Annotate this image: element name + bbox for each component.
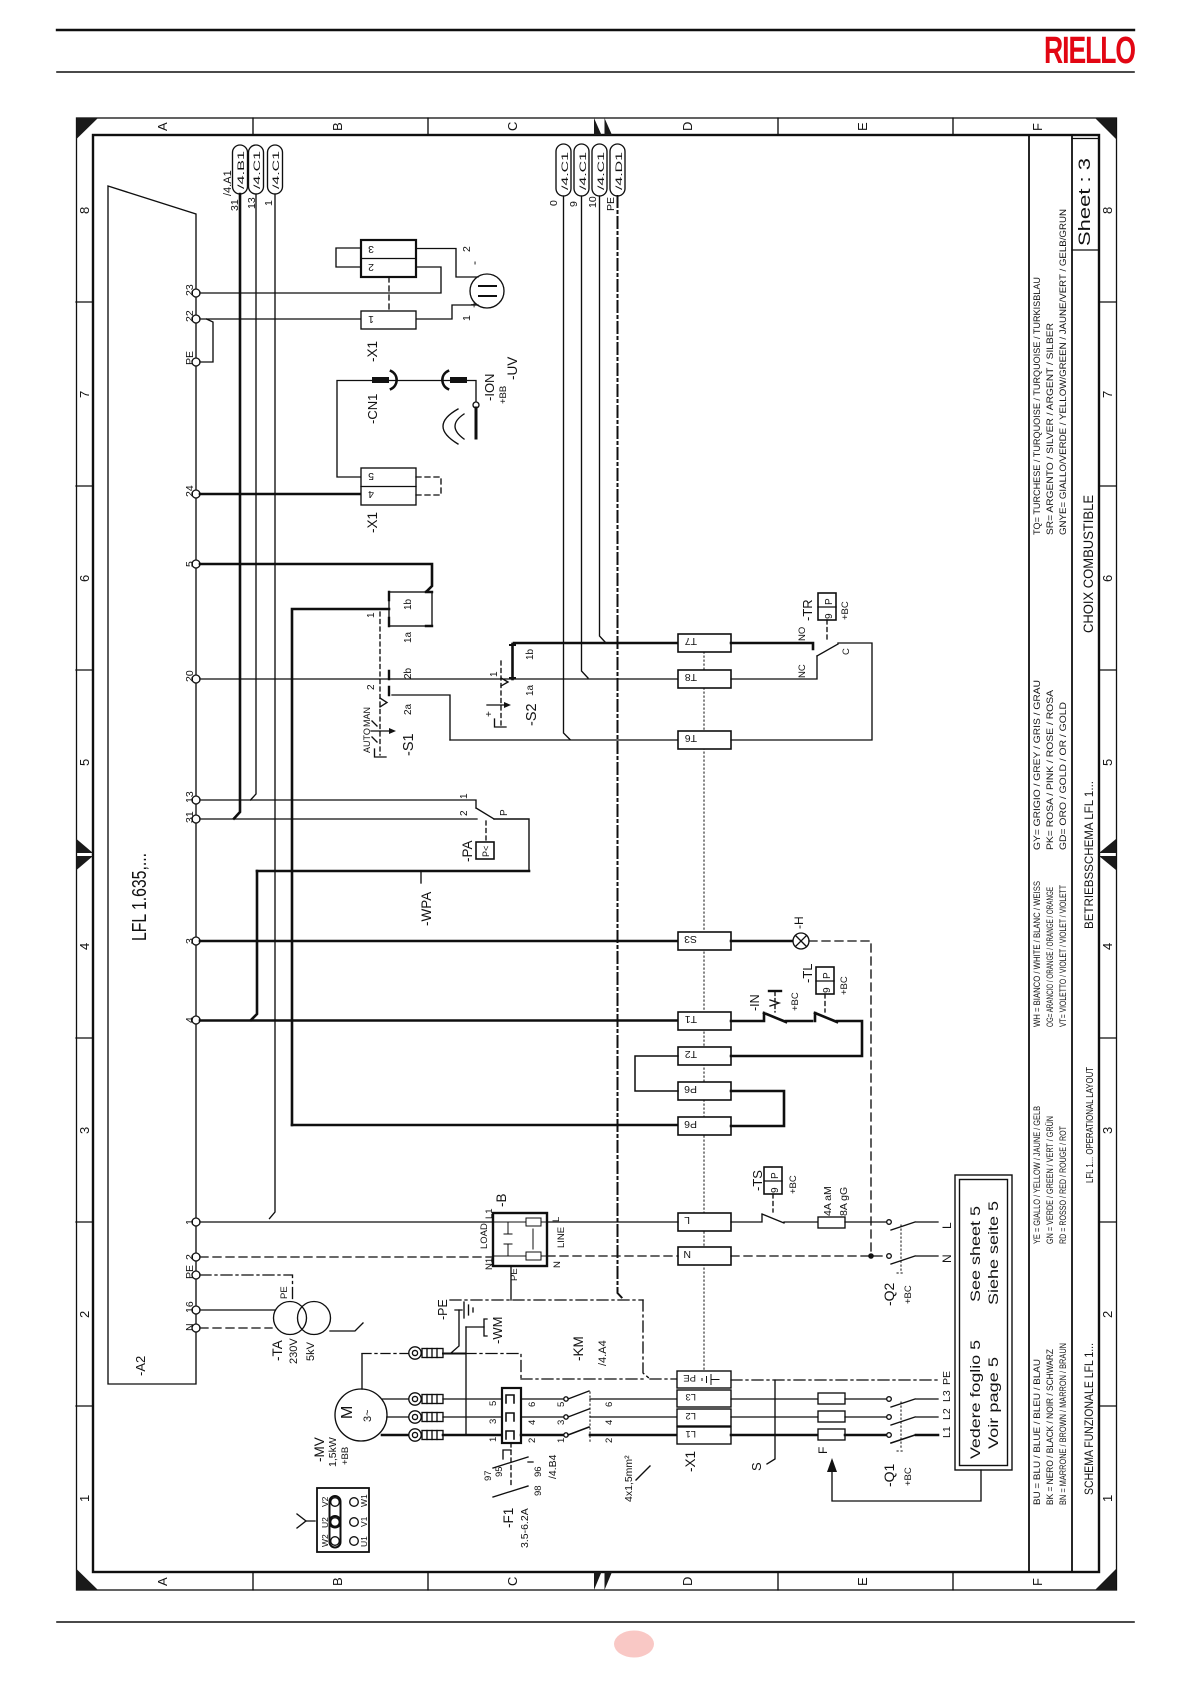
svg-text:W2: W2 — [320, 1534, 330, 1547]
svg-text:1: 1 — [459, 793, 470, 799]
label contact pins — [556, 1402, 615, 1443]
svg-text:5: 5 — [1100, 759, 1115, 766]
connector housing bracket — [336, 248, 361, 267]
svg-text:T6: T6 — [685, 732, 697, 744]
wire terminal 2 to filter B dashed — [200, 1256, 493, 1258]
KM contact pole 5-6 — [521, 1398, 563, 1400]
damper motor WM bracket — [484, 1319, 487, 1336]
bus wire 1 from capsule — [270, 194, 276, 1219]
svg-text:/4.B4: /4.B4 — [547, 1454, 559, 1479]
dashed link PA — [485, 821, 487, 842]
svg-text:GD= ORO / GOLD / OR / GOLD: GD= ORO / GOLD / OR / GOLD — [1058, 702, 1069, 850]
wire filter B to L box — [547, 1221, 678, 1223]
svg-text:PE: PE — [605, 197, 617, 211]
zone letters top band — [155, 122, 1045, 131]
svg-text:3: 3 — [77, 1127, 92, 1134]
svg-text:S3: S3 — [684, 933, 697, 945]
terminal 23 — [192, 289, 200, 297]
control box A2 outline — [108, 186, 196, 1384]
switch Q2 L pole — [887, 1220, 892, 1225]
svg-text:/4.A4: /4.A4 — [597, 1340, 609, 1366]
WPA tick — [420, 871, 422, 883]
TR contact arm — [817, 644, 838, 656]
svg-text:/4.C1: /4.C1 — [578, 152, 589, 190]
svg-text:-UV: -UV — [505, 357, 520, 380]
bottom page rule — [57, 1621, 1134, 1623]
drawing inner frame — [93, 135, 1099, 1572]
svg-text:T7: T7 — [685, 635, 697, 647]
svg-text:CHOIX COMBUSTIBLE: CHOIX COMBUSTIBLE — [1081, 495, 1096, 633]
fuel selector S2 contact bar — [511, 644, 514, 679]
off-page capsule /4.C1 Q — [556, 144, 571, 196]
svg-text:-KM: -KM — [571, 1336, 586, 1361]
svg-text:/4.B1: /4.B1 — [236, 151, 247, 189]
top header rule 2 — [57, 71, 1134, 73]
svg-text:NC: NC — [797, 664, 808, 678]
KM contact pole 1-2 thick — [521, 1434, 563, 1437]
svg-text:97: 97 — [483, 1470, 494, 1481]
svg-text:B: B — [330, 122, 345, 131]
svg-text:P: P — [824, 598, 835, 605]
centering triangles left edge — [77, 839, 94, 870]
svg-text:2: 2 — [366, 684, 377, 690]
motor earth lead — [361, 1354, 363, 1389]
svg-text:3.5-6.2A: 3.5-6.2A — [519, 1508, 531, 1548]
svg-text:-Q2: -Q2 — [881, 1282, 897, 1306]
svg-text:PK= ROSA / PINK / ROSE / ROSA: PK= ROSA / PINK / ROSE / ROSA — [1045, 689, 1056, 850]
svg-text:Voir page 5: Voir page 5 — [985, 1357, 1001, 1449]
wire terminal 20 through S1 2b to S2 1a and T8 — [200, 678, 678, 680]
svg-text:1: 1 — [366, 612, 377, 618]
svg-text:YE = GIALLO / YELLOW / JAUNE /: YE = GIALLO / YELLOW / JAUNE / GELB — [1032, 1106, 1043, 1244]
svg-text:GNYE= GIALLO/VERDE / YELLOW/GR: GNYE= GIALLO/VERDE / YELLOW/GREEN / JAUN… — [1058, 209, 1069, 535]
colour legend group blue/black/brown — [1032, 1343, 1069, 1505]
terminal 20 — [192, 675, 200, 683]
svg-text:1: 1 — [77, 1495, 92, 1502]
svg-text:PE: PE — [184, 1265, 196, 1279]
off-page capsule /4.C1 9 — [574, 144, 589, 196]
svg-text:1b: 1b — [403, 598, 414, 610]
plug CN1 right half — [442, 371, 448, 389]
star connection symbol — [297, 1514, 315, 1528]
ring terminal V — [409, 1411, 421, 1423]
remote box 9P TL — [816, 967, 834, 994]
svg-text:-TR: -TR — [800, 599, 815, 621]
svg-text:MAN: MAN — [362, 707, 372, 727]
PA housing — [494, 819, 529, 871]
svg-text:95: 95 — [494, 1466, 505, 1477]
svg-text:-WPA: -WPA — [419, 892, 434, 926]
svg-text:1: 1 — [184, 1219, 196, 1225]
svg-text:8A gG: 8A gG — [838, 1187, 850, 1216]
svg-text:2: 2 — [1100, 1311, 1115, 1318]
svg-text:L2: L2 — [685, 1410, 696, 1421]
svg-text:/4.C1: /4.C1 — [271, 151, 282, 189]
wire P6 upper east loop to P6 lower — [731, 1091, 784, 1126]
pink stamp ellipse — [614, 1631, 654, 1658]
wire L box to TS contact — [731, 1214, 818, 1223]
motor terminal plate box — [317, 1488, 369, 1552]
switch Q1 pole L3 — [887, 1397, 892, 1402]
svg-text:-TL: -TL — [800, 964, 815, 984]
svg-text:6: 6 — [604, 1402, 615, 1407]
svg-text:L: L — [551, 1217, 562, 1222]
wire ring PE to ground riser — [443, 1353, 465, 1355]
terminal PE mid — [192, 1271, 200, 1279]
connector X1 pin 1 — [361, 311, 416, 329]
motor earth dash-dot to ring — [362, 1353, 408, 1355]
drawing outer frame — [77, 118, 1117, 1590]
svg-text:5: 5 — [556, 1402, 567, 1407]
svg-text:-PE: -PE — [436, 1299, 450, 1320]
wire terminal 1 to filter B — [200, 1221, 493, 1223]
svg-text:PE: PE — [184, 351, 196, 365]
svg-text:1: 1 — [461, 315, 473, 321]
line labels L1 L2 L3 PE — [941, 1371, 953, 1438]
terminal PE top — [192, 358, 200, 366]
ignition transformer TA — [274, 1302, 307, 1335]
wire X1 L2 east — [731, 1416, 818, 1418]
svg-text:N1: N1 — [484, 1258, 495, 1270]
svg-text:N: N — [184, 1323, 196, 1331]
dashed wire lamp to N junction — [809, 941, 871, 1253]
svg-text:8: 8 — [77, 207, 92, 214]
wire X1 pin5 to CN1 — [337, 381, 476, 478]
top band zone dividers — [253, 118, 953, 135]
junction dot N — [868, 1253, 874, 1259]
corner triangle top-left — [77, 118, 99, 139]
connector X1 pins 3 2 — [361, 240, 416, 277]
svg-text:PE: PE — [941, 1371, 953, 1385]
svg-text:L1: L1 — [484, 1208, 495, 1219]
ground symbol PE riser — [455, 1302, 473, 1318]
wire terminal 4 to T1 — [200, 1019, 678, 1022]
svg-text:SCHEMA FUNZIONALE LFL 1...: SCHEMA FUNZIONALE LFL 1... — [1084, 1343, 1096, 1495]
svg-text:P: P — [822, 972, 833, 979]
svg-text:1: 1 — [488, 1437, 499, 1442]
wire terminal 22 to UV pin1 — [200, 305, 478, 319]
svg-text:S: S — [749, 1462, 764, 1471]
wire V to KM — [443, 1416, 502, 1418]
svg-text:C: C — [841, 648, 852, 655]
svg-text:24: 24 — [184, 485, 196, 497]
wire N box to Q2 dashed — [731, 1255, 886, 1257]
TL output loop to T2 — [731, 1021, 862, 1056]
svg-text:VT= VIOLETTO / VIOLET / VIOLET: VT= VIOLETTO / VIOLET / VIOLET / VIOLETT — [1058, 885, 1069, 1027]
terminal box T6 — [678, 731, 731, 749]
KM linkage dotted — [589, 1392, 591, 1442]
svg-text:3: 3 — [368, 243, 374, 255]
colour legend group turquoise/silver/yellowgreen — [1032, 209, 1069, 535]
top header rule 1 — [57, 29, 1134, 31]
TR NC wire — [731, 656, 817, 679]
svg-text:98: 98 — [533, 1485, 544, 1496]
wire S1 2a to T6 line — [392, 695, 450, 740]
thermal relay F1 dashed link — [510, 1443, 512, 1486]
terminal strip X1 L3 box — [677, 1390, 731, 1407]
svg-text:9: 9 — [824, 613, 835, 619]
svg-text:7: 7 — [1100, 391, 1115, 398]
pressure sensor box P — [476, 842, 494, 859]
svg-text:+BC: +BC — [903, 1285, 914, 1304]
corner triangle bottom-right — [1095, 1569, 1116, 1590]
svg-text:N: N — [683, 1248, 691, 1260]
wire PA bottom bus — [257, 870, 529, 873]
filter B earth lead — [510, 1266, 512, 1300]
reference arrow from Vedere box — [832, 1470, 981, 1501]
svg-text:L1: L1 — [941, 1426, 953, 1438]
selector S1 contact 2b marks — [388, 671, 390, 695]
terminal box T7 — [678, 634, 731, 652]
svg-text:1: 1 — [489, 671, 500, 677]
svg-text:W1: W1 — [359, 1494, 369, 1507]
terminal 22 — [192, 315, 200, 323]
wire PE terminal to transformer dash-dot — [200, 1275, 293, 1301]
svg-text:4: 4 — [368, 488, 374, 500]
connector X1 pins 5 4 — [361, 468, 416, 505]
svg-text:RD = ROSSO / RED / ROUGE / ROT: RD = ROSSO / RED / ROUGE / ROT — [1058, 1126, 1069, 1244]
svg-text:4: 4 — [1100, 943, 1115, 950]
wire terminal 3 to S3 — [200, 940, 678, 943]
svg-text:31: 31 — [184, 811, 196, 823]
svg-text:2: 2 — [604, 1438, 615, 1443]
svg-text:D: D — [680, 122, 695, 131]
wire terminal N to transformer dashed — [200, 1327, 272, 1329]
svg-text:P6: P6 — [684, 1083, 697, 1095]
UV cell — [470, 274, 504, 308]
svg-text:D: D — [680, 1577, 695, 1586]
svg-text:1: 1 — [1100, 1495, 1115, 1502]
svg-text:22: 22 — [184, 310, 196, 322]
terminal 3 — [192, 937, 200, 945]
svg-text:-A2: -A2 — [133, 1356, 148, 1376]
wire T2 west loop to P6 upper — [635, 1056, 678, 1091]
colour legend group yellow/green/red — [1032, 1106, 1069, 1244]
svg-text:3: 3 — [1100, 1127, 1115, 1134]
svg-text:+: + — [484, 711, 495, 717]
svg-text:V1: V1 — [359, 1516, 369, 1527]
flame arcs — [443, 409, 464, 444]
terminal box L — [678, 1213, 731, 1231]
thermostat TR NO wire — [731, 643, 813, 649]
svg-text:B: B — [330, 1577, 345, 1586]
svg-text:A: A — [155, 122, 170, 131]
svg-text:230V: 230V — [288, 1338, 300, 1364]
svg-text:1: 1 — [556, 1438, 567, 1443]
svg-text:U1: U1 — [359, 1536, 369, 1547]
svg-text:E: E — [855, 122, 870, 131]
svg-text:5: 5 — [184, 561, 196, 567]
KM contact pole 3-4 — [521, 1416, 563, 1418]
svg-text:N: N — [940, 1254, 954, 1263]
svg-text:+BC: +BC — [790, 992, 801, 1011]
svg-text:NO: NO — [797, 627, 808, 641]
svg-text:BU = BLU / BLUE / BLEU / BLAU: BU = BLU / BLUE / BLEU / BLAU — [1032, 1359, 1043, 1505]
svg-text:-H: -H — [792, 916, 806, 929]
svg-text:V2: V2 — [320, 1496, 330, 1507]
fuse L2 — [818, 1411, 845, 1422]
terminal box P6 upper — [678, 1082, 731, 1100]
terminal box P6 lower — [678, 1117, 731, 1135]
svg-text:96: 96 — [533, 1466, 544, 1477]
svg-text:-MV: -MV — [312, 1437, 327, 1462]
svg-text:-X1: -X1 — [365, 341, 380, 362]
svg-text:PE: PE — [279, 1286, 290, 1299]
label KM pins right — [527, 1402, 538, 1443]
selector S1 contact 1b frame — [389, 592, 432, 626]
colour legend group grey/pink/gold — [1032, 680, 1069, 850]
wire X1 PE east dash-dot — [731, 1379, 938, 1381]
cable marker 4x1.5mm2 — [636, 1466, 650, 1480]
bus wire 10 from capsule — [600, 196, 606, 643]
svg-text:10: 10 — [587, 196, 599, 208]
svg-text:BN = MARRONE / BROWN / MARRON: BN = MARRONE / BROWN / MARRON / BRAUN — [1058, 1343, 1069, 1505]
svg-text:GY= GRIGIO / GREY / GRIS / GRA: GY= GRIGIO / GREY / GRIS / GRAU — [1032, 680, 1043, 850]
svg-text:-X1: -X1 — [365, 512, 380, 533]
terminal strip X1 L1 box — [677, 1427, 731, 1444]
svg-text:/4.C1: /4.C1 — [596, 152, 607, 190]
svg-text:7: 7 — [77, 391, 92, 398]
terminal 4 — [192, 1016, 200, 1024]
terminal strip X1 L2 box — [677, 1409, 731, 1426]
svg-text:6: 6 — [1100, 575, 1115, 582]
WM riser to L1 wire — [465, 1327, 467, 1435]
off-page capsule /4.C1 a — [249, 145, 264, 194]
svg-text:-TA: -TA — [270, 1340, 285, 1361]
bus wire 31 from capsule — [234, 194, 240, 819]
svg-text:1: 1 — [368, 313, 374, 325]
svg-text:1a: 1a — [525, 684, 536, 696]
F1 pin labels — [483, 1466, 544, 1496]
zone numbers left band — [77, 207, 92, 1502]
svg-text:PE: PE — [683, 1372, 696, 1383]
wire terminal 16 to transformer — [200, 1309, 275, 1311]
svg-text:20: 20 — [184, 670, 196, 682]
svg-text:5kV: 5kV — [305, 1341, 317, 1361]
fuse L1 — [818, 1429, 845, 1440]
zone letters bottom band — [155, 1577, 1045, 1586]
bus wire 0 from capsule — [564, 196, 571, 740]
svg-text:2a: 2a — [403, 703, 414, 715]
wire S1 1b output — [292, 609, 389, 1125]
svg-text:C: C — [505, 1577, 520, 1586]
IN actuator — [769, 990, 781, 992]
contact IN on T1 wire — [731, 1013, 812, 1022]
dashed jumper pins 5-4 — [416, 477, 441, 495]
svg-text:3~: 3~ — [362, 1409, 374, 1422]
title strip left border — [1071, 135, 1073, 1572]
svg-text:BETRIEBSSCHEMA LFL 1...: BETRIEBSSCHEMA LFL 1... — [1082, 781, 1096, 929]
right band zone dividers — [1099, 302, 1116, 1406]
wire terminal 24 to X1 pin4 — [200, 493, 361, 496]
wire terminal 23 to X1 pin2 — [200, 267, 441, 293]
terminal 1 — [192, 1218, 200, 1226]
svg-text:F: F — [1030, 123, 1045, 131]
terminal 31 — [192, 815, 200, 823]
svg-text:5: 5 — [368, 470, 374, 482]
svg-text:-: - — [467, 261, 481, 265]
contactor KM connector block — [502, 1388, 521, 1443]
svg-text:23: 23 — [184, 284, 196, 296]
svg-text:WH = BIANCO / WHITE / BLANC /: WH = BIANCO / WHITE / BLANC / WEISS — [1032, 881, 1043, 1027]
svg-text:+BB: +BB — [498, 386, 509, 404]
wire to P6b — [292, 1124, 678, 1127]
svg-text:RIELLO: RIELLO — [1044, 30, 1135, 72]
switch Q1 pole L2 — [887, 1415, 892, 1420]
svg-text:4: 4 — [184, 1017, 196, 1023]
svg-text:-S2: -S2 — [524, 703, 540, 726]
centering triangles right edge — [1099, 839, 1116, 870]
label KM pins left — [488, 1401, 499, 1442]
svg-text:L2: L2 — [941, 1408, 953, 1420]
svg-text:3: 3 — [488, 1419, 499, 1424]
svg-text:2b: 2b — [403, 667, 414, 679]
svg-text:SR= ARGENTO / SILVER / ARGENT: SR= ARGENTO / SILVER / ARGENT / SILBER — [1045, 323, 1056, 535]
switch Q2 N pole — [887, 1254, 892, 1259]
signal lamp H — [793, 933, 809, 949]
centering triangles top edge — [594, 118, 612, 135]
svg-text:5: 5 — [77, 759, 92, 766]
svg-text:3: 3 — [184, 938, 196, 944]
svg-text:2: 2 — [527, 1438, 538, 1443]
svg-text:+BC: +BC — [839, 976, 850, 995]
svg-text:TQ= TURCHESE / TURQUOISE / TUR: TQ= TURCHESE / TURQUOISE / TURQUOISE / T… — [1032, 277, 1043, 535]
svg-text:-IN: -IN — [748, 994, 762, 1011]
terminal plate labels — [320, 1494, 369, 1547]
terminal 24 — [192, 490, 200, 498]
see sheet 5 reference box — [955, 1175, 1012, 1470]
centering triangles bottom edge — [594, 1572, 612, 1590]
svg-text:-X1: -X1 — [683, 1451, 698, 1472]
svg-text:13: 13 — [184, 791, 196, 803]
svg-text:L1: L1 — [685, 1428, 696, 1439]
terminal box S3 — [678, 932, 731, 950]
svg-text:F: F — [816, 1447, 830, 1454]
suppressor filter B — [493, 1213, 547, 1266]
corner triangle top-right — [1095, 118, 1116, 139]
Q1 linkage dotted — [897, 1402, 905, 1451]
svg-text:1b: 1b — [525, 648, 536, 660]
svg-text:9: 9 — [770, 1187, 781, 1193]
remote box 9P TS — [764, 1167, 782, 1194]
svg-text:-ION: -ION — [482, 374, 497, 401]
switch Q1 pole L1 — [887, 1433, 892, 1438]
wire S2 1b to T7 — [514, 642, 678, 645]
svg-text:1a: 1a — [403, 631, 414, 643]
svg-text:P: P — [499, 809, 510, 816]
wire X1 L1 east thick — [731, 1434, 818, 1437]
wire air pressure loop to terminal 4 — [251, 871, 257, 1020]
shield line S — [767, 1380, 775, 1464]
svg-text:L3: L3 — [941, 1390, 953, 1402]
svg-text:4: 4 — [77, 943, 92, 950]
svg-text:-PA: -PA — [460, 840, 475, 862]
svg-text:+BC: +BC — [903, 1467, 914, 1486]
plug CN1 left half — [372, 377, 389, 383]
svg-text:3: 3 — [556, 1420, 567, 1425]
terminal 13 — [192, 796, 200, 804]
svg-text:+BC: +BC — [788, 1175, 799, 1194]
svg-text:1,5kW: 1,5kW — [327, 1437, 339, 1467]
svg-text:6: 6 — [77, 575, 92, 582]
svg-text:T1: T1 — [685, 1013, 697, 1025]
terminal N — [192, 1324, 200, 1332]
ring terminal PE — [409, 1347, 421, 1359]
svg-text:-B: -B — [494, 1194, 509, 1208]
terminal box N — [678, 1247, 731, 1265]
svg-text:LINE: LINE — [556, 1227, 567, 1248]
bus wire 13 from capsule — [251, 194, 257, 800]
